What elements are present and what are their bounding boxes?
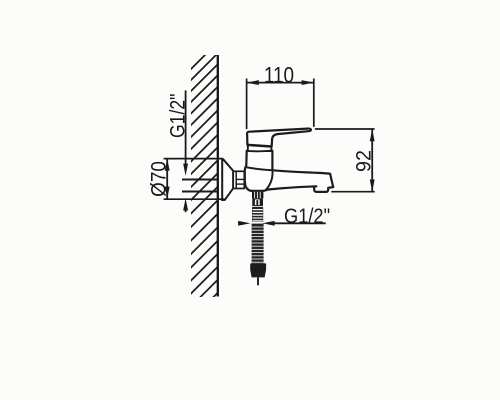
hose lower ribbed section [252,224,264,264]
dimension Ø70 [164,159,225,200]
svg-text:G1/2": G1/2" [284,205,330,228]
wall hatching [165,25,235,346]
connector collar and nut [233,171,244,188]
hose thread block [252,192,263,199]
supply pipe stub in wall [182,179,218,181]
dimension 92 [315,129,375,192]
body shoulder line [246,167,273,170]
lever handle [247,129,311,147]
hose nut [252,198,263,207]
label G1/2 left with leader [183,90,188,212]
dimension 110 [247,79,314,130]
wall face line [217,55,219,297]
svg-text:G1/2": G1/2" [166,94,190,138]
label G1/2 bottom with arrows [238,221,326,226]
svg-text:92: 92 [352,150,376,172]
svg-text:110: 110 [264,63,294,88]
faucet body + spout silhouette [245,151,333,192]
svg-text:Ø70: Ø70 [147,161,170,197]
hose upper ribbed section [252,208,263,222]
hose end pin [257,277,259,285]
body right edge curve [266,171,273,190]
escutcheon flange on wall [222,159,233,200]
hose end fitting [250,263,266,277]
handle ferrule [248,145,272,151]
